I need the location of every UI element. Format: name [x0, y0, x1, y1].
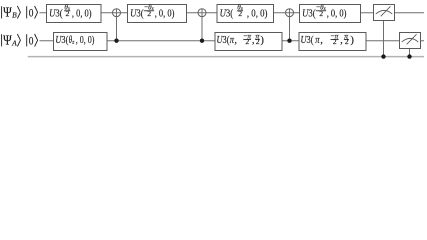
CNOT 2 control — [200, 39, 204, 43]
svg-text:): ) — [260, 34, 264, 46]
svg-text:2: 2 — [333, 37, 337, 46]
svg-text:U3(: U3( — [301, 34, 314, 46]
svg-text:, 0, 0): , 0, 0) — [247, 8, 268, 20]
measure M2 classical drop — [409, 49, 411, 57]
CNOT 1 vertical wire — [116, 9, 118, 41]
svg-text:2: 2 — [256, 37, 260, 46]
gate U3(-theta_x/2,0,0) box 4 top — [300, 3, 361, 23]
gate U3(theta_x/2,0,0) box 3 top — [217, 3, 274, 23]
svg-text:0: 0 — [29, 35, 34, 47]
svg-text:,: , — [234, 34, 237, 46]
svg-text:,: , — [340, 34, 343, 46]
classical wire c0 — [28, 56, 424, 58]
svg-text:,: , — [252, 34, 255, 46]
gate U3(theta_z,0,0) box 1 bottom — [54, 33, 108, 51]
wire qubit bottom — [40, 40, 425, 42]
svg-text:B: B — [12, 10, 17, 19]
wire qubit top — [40, 12, 425, 14]
svg-text:2: 2 — [345, 37, 349, 46]
measure M1 box top — [374, 5, 395, 21]
CNOT 1 target — [113, 9, 121, 17]
svg-text:2: 2 — [66, 9, 70, 18]
svg-text:,: , — [320, 34, 323, 46]
svg-text:U3(: U3( — [220, 8, 234, 20]
measure M2 classical dot — [407, 54, 411, 58]
ket |0> top — [27, 6, 38, 19]
svg-text:Ψ: Ψ — [3, 32, 12, 47]
svg-text:U3(: U3( — [49, 8, 63, 20]
CNOT 3 target — [286, 9, 294, 17]
svg-text:, 0, 0): , 0, 0) — [327, 8, 347, 20]
svg-text:U3(: U3( — [302, 8, 316, 20]
svg-text:A: A — [11, 38, 17, 47]
CNOT 3 control — [287, 39, 291, 43]
svg-text:, 0, 0): , 0, 0) — [76, 34, 95, 46]
CNOT 1 control — [114, 39, 118, 43]
svg-text:U3(: U3( — [55, 34, 68, 46]
gate U3(-theta_x/2,0,0) box 2 top — [128, 3, 187, 23]
svg-text:): ) — [350, 34, 354, 46]
svg-text:, 0, 0): , 0, 0) — [155, 8, 175, 20]
svg-text:2: 2 — [245, 37, 249, 46]
CNOT 2 target — [198, 9, 206, 17]
svg-text:U3(: U3( — [130, 8, 144, 20]
svg-text:2: 2 — [147, 9, 151, 18]
svg-text:, 0, 0): , 0, 0) — [72, 8, 92, 20]
svg-text:Ψ: Ψ — [3, 4, 12, 19]
measure M2 box bottom — [400, 33, 421, 49]
qubit label |Psi_A> — [2, 32, 21, 47]
gate U3(pi,-pi/2,pi/2) box 3 bottom — [299, 31, 366, 50]
CNOT 3 vertical wire — [289, 9, 291, 41]
measure M1 classical drop — [383, 21, 385, 57]
qubit label |Psi_B> — [2, 4, 21, 19]
svg-text:U3(: U3( — [217, 34, 230, 46]
svg-text:2: 2 — [238, 9, 242, 18]
gate U3(theta_x/2,0,0) box 1 top — [47, 3, 102, 23]
CNOT 2 vertical wire — [201, 9, 203, 41]
svg-text:2: 2 — [319, 9, 323, 18]
ket |0> bottom — [27, 34, 38, 47]
measure M1 classical dot — [381, 54, 385, 58]
svg-text:0: 0 — [29, 7, 34, 19]
gate U3(pi,-pi/2,pi/2) box 2 bottom — [215, 31, 282, 50]
